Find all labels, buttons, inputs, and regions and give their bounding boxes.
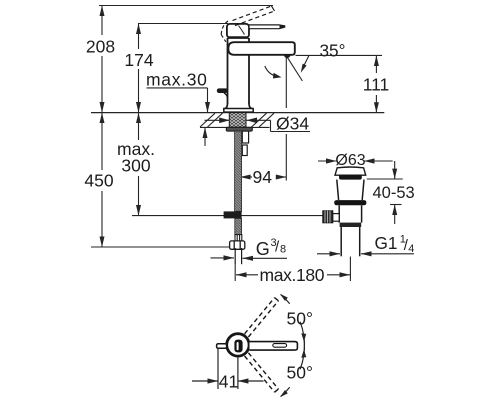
dimension 111 xyxy=(363,55,390,112)
wire pop-up rod to drain (bottom line of max.300) xyxy=(132,215,323,217)
drain plug cap dark band xyxy=(339,175,362,180)
svg-text:300: 300 xyxy=(121,156,150,176)
plan faucet body circle xyxy=(227,334,249,356)
drain tailpipe G1 1/4 xyxy=(341,227,360,256)
svg-text:111: 111 xyxy=(363,74,390,94)
supply pipe thread end xyxy=(235,248,241,264)
arrow rotation arc under spout xyxy=(265,66,282,79)
plan spout stub xyxy=(217,344,227,349)
arrow arc 50 degrees upper xyxy=(280,294,306,351)
svg-text:G1: G1 xyxy=(375,233,398,253)
dimension max.180 xyxy=(236,265,350,285)
hatching left of faucet hole xyxy=(200,113,223,127)
plan cartridge slot xyxy=(234,340,242,353)
svg-text:40-53: 40-53 xyxy=(372,184,414,202)
aerator nub under spout xyxy=(284,54,291,58)
dimension 40-53 xyxy=(367,161,415,224)
label 35 degrees with leader xyxy=(296,41,383,73)
wire extension line drain axis to max.180 xyxy=(349,257,351,282)
lever internal pivot line xyxy=(239,26,245,35)
mounting washer under deck xyxy=(226,127,252,131)
svg-text:4: 4 xyxy=(408,243,414,255)
drain cup xyxy=(337,180,364,200)
wire bottom line of 450 xyxy=(91,246,233,248)
drain flange washer xyxy=(334,200,366,205)
hatching right of faucet hole xyxy=(252,113,275,127)
svg-text:35°: 35° xyxy=(320,41,346,61)
faucet base flare xyxy=(224,104,253,113)
flexible supply hose lower xyxy=(235,218,242,234)
dashed raised handle position xyxy=(233,6,275,26)
wire 35 degree reference diagonal at aerator xyxy=(287,57,302,81)
dimension 174 xyxy=(124,24,153,113)
svg-text:50°: 50° xyxy=(287,308,313,328)
threaded shank through deck xyxy=(229,113,246,128)
pop-up rod fitting xyxy=(224,211,242,218)
wire extension line 174 top xyxy=(138,23,228,25)
dimension max.300 xyxy=(117,113,155,216)
faucet body column xyxy=(228,37,250,105)
mounting stud with nut xyxy=(242,131,248,155)
knurled rod adjuster xyxy=(323,211,339,223)
spout block xyxy=(228,42,294,55)
flexible supply hose upper xyxy=(235,131,242,211)
svg-text:max.180: max.180 xyxy=(260,265,325,285)
svg-text:8: 8 xyxy=(280,244,286,256)
drain body bottom nut band xyxy=(340,223,362,227)
dimension max.30 xyxy=(146,69,210,146)
dimension 94 xyxy=(240,167,286,187)
svg-text:G: G xyxy=(256,239,270,259)
dimension diameter 63 xyxy=(318,152,393,169)
pop-up pull rod knob xyxy=(217,88,228,97)
svg-text:41: 41 xyxy=(219,371,238,391)
wire extension line 208 top xyxy=(99,5,273,7)
svg-text:50°: 50° xyxy=(287,362,313,382)
dimension 208 xyxy=(86,6,115,113)
supply hex nut G3/8 xyxy=(230,241,245,249)
plan lever bar xyxy=(250,342,298,351)
dashed lever rotated down 50 xyxy=(245,353,279,392)
svg-text:208: 208 xyxy=(86,36,115,56)
svg-text:450: 450 xyxy=(84,171,113,191)
label G 3/8 with dimension arrows xyxy=(211,237,288,261)
wire extension line faucet axis to max.180 xyxy=(234,264,236,281)
handle lever bar xyxy=(249,25,285,29)
svg-text:94: 94 xyxy=(253,167,273,187)
dimension diameter 34 xyxy=(205,114,311,134)
deck counter bottom line xyxy=(200,126,270,128)
wire extension line from aerator down to 94 xyxy=(285,57,287,181)
arrow arc 50 degrees lower xyxy=(280,340,306,397)
handle cartridge housing xyxy=(227,24,249,38)
drain body xyxy=(339,205,361,222)
hose crimp collar xyxy=(235,235,242,242)
deck counter top line xyxy=(91,112,384,114)
dashed lever rotated up 50 xyxy=(245,298,279,337)
svg-text:max.30: max.30 xyxy=(146,69,208,89)
drain plug cap rim xyxy=(335,167,366,175)
dimension 450 xyxy=(84,113,113,247)
label G 1 1/4 with dimension arrows xyxy=(317,233,414,256)
dimension 41 xyxy=(192,349,264,392)
svg-text:Ø34: Ø34 xyxy=(276,114,309,134)
svg-text:174: 174 xyxy=(124,50,153,70)
dashed rotated housing hint xyxy=(221,21,228,42)
